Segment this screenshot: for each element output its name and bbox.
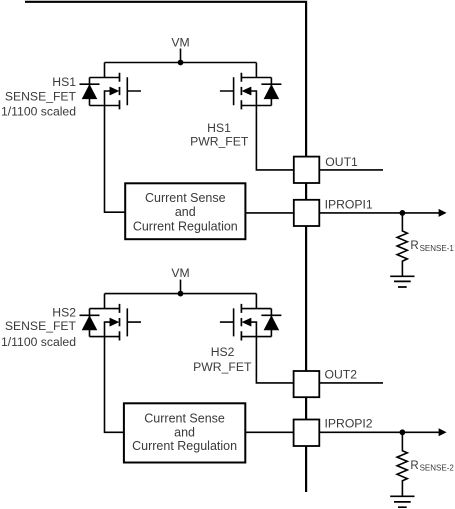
svg-text:VM: VM bbox=[171, 35, 189, 49]
svg-text:OUT2: OUT2 bbox=[325, 367, 358, 381]
svg-text:R: R bbox=[410, 460, 418, 472]
svg-text:R: R bbox=[410, 240, 418, 252]
svg-text:OUT1: OUT1 bbox=[325, 155, 358, 169]
svg-text:Current Sense: Current Sense bbox=[145, 191, 226, 205]
svg-text:PWR_FET: PWR_FET bbox=[193, 360, 252, 374]
svg-text:SENSE_FET: SENSE_FET bbox=[5, 89, 77, 103]
svg-text:SENSE-2: SENSE-2 bbox=[420, 464, 455, 473]
svg-text:IPROPI1: IPROPI1 bbox=[325, 198, 373, 212]
svg-text:SENSE-1: SENSE-1 bbox=[420, 244, 455, 253]
svg-text:Current Regulation: Current Regulation bbox=[132, 439, 237, 453]
svg-text:VM: VM bbox=[171, 266, 189, 280]
svg-text:HS1: HS1 bbox=[52, 75, 76, 89]
svg-text:HS1: HS1 bbox=[207, 121, 231, 135]
svg-text:HS2: HS2 bbox=[211, 345, 235, 359]
svg-text:Current Sense: Current Sense bbox=[144, 411, 225, 425]
svg-text:1/1100 scaled: 1/1100 scaled bbox=[1, 104, 76, 118]
svg-text:HS2: HS2 bbox=[52, 305, 76, 319]
svg-text:1/1100 scaled: 1/1100 scaled bbox=[1, 335, 76, 349]
svg-text:and: and bbox=[174, 426, 195, 440]
svg-text:IPROPI2: IPROPI2 bbox=[325, 417, 373, 431]
svg-text:Current Regulation: Current Regulation bbox=[133, 219, 238, 233]
svg-text:SENSE_FET: SENSE_FET bbox=[5, 319, 77, 333]
svg-text:and: and bbox=[175, 205, 196, 219]
svg-text:PWR_FET: PWR_FET bbox=[190, 135, 249, 149]
